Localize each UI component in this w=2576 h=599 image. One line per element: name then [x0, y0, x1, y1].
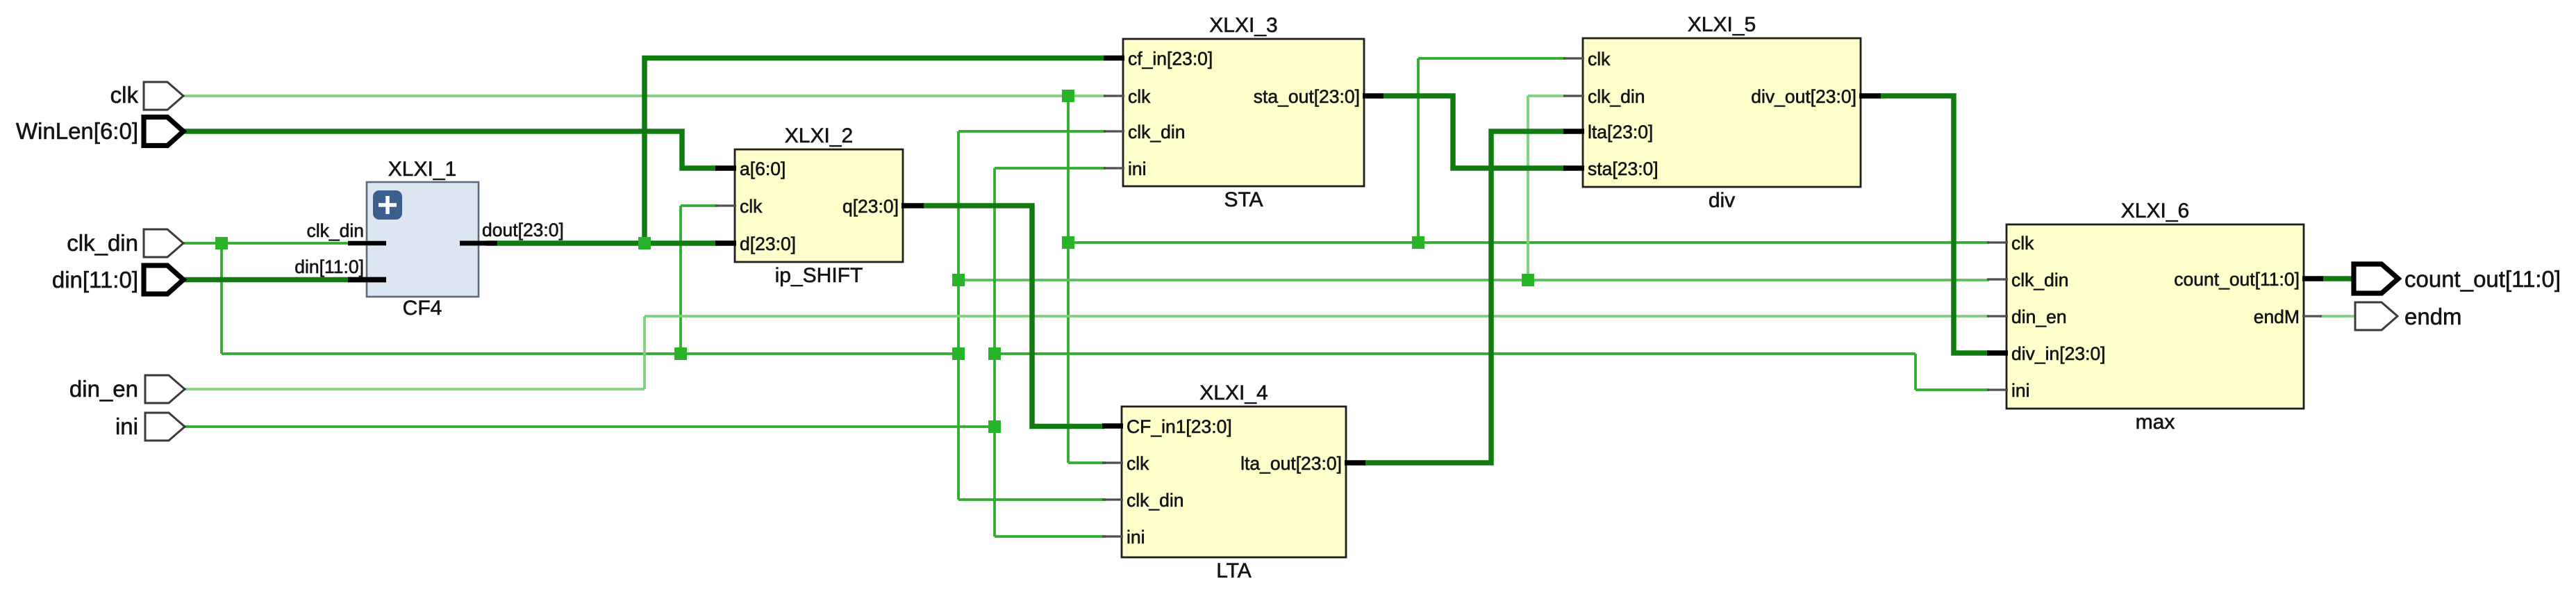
svg-text:ini: ini [1127, 527, 1145, 548]
svg-text:div: div [1709, 189, 1735, 212]
svg-text:XLXI_2: XLXI_2 [785, 124, 853, 147]
svg-text:CF4: CF4 [403, 297, 442, 320]
svg-text:clk: clk [1588, 49, 1611, 69]
svg-text:LTA: LTA [1216, 559, 1252, 582]
svg-text:div_in[23:0]: div_in[23:0] [2011, 343, 2106, 364]
svg-text:clk: clk [1127, 453, 1149, 474]
svg-text:sta[23:0]: sta[23:0] [1588, 158, 1659, 179]
svg-text:ip_SHIFT: ip_SHIFT [775, 264, 863, 287]
svg-text:din[11:0]: din[11:0] [294, 256, 364, 277]
svg-text:din[11:0]: din[11:0] [52, 267, 138, 293]
svg-text:XLXI_4: XLXI_4 [1199, 381, 1268, 404]
svg-text:XLXI_6: XLXI_6 [2121, 199, 2189, 222]
svg-text:CF_in1[23:0]: CF_in1[23:0] [1127, 416, 1232, 437]
svg-text:lta_out[23:0]: lta_out[23:0] [1240, 453, 1342, 474]
svg-text:din_en: din_en [2011, 306, 2067, 327]
svg-text:clk: clk [2011, 233, 2034, 254]
svg-text:XLXI_5: XLXI_5 [1688, 13, 1756, 36]
svg-text:dout[23:0]: dout[23:0] [482, 220, 564, 240]
svg-text:XLXI_1: XLXI_1 [388, 158, 456, 181]
svg-text:cf_in[23:0]: cf_in[23:0] [1128, 49, 1213, 69]
svg-text:clk: clk [110, 82, 139, 108]
svg-text:clk_din: clk_din [2011, 270, 2069, 290]
svg-text:count_out[11:0]: count_out[11:0] [2174, 269, 2300, 290]
svg-text:endM: endM [2254, 306, 2300, 327]
svg-text:clk_din: clk_din [307, 220, 365, 241]
svg-text:max: max [2136, 411, 2175, 434]
svg-text:sta_out[23:0]: sta_out[23:0] [1254, 86, 1360, 107]
svg-text:din_en: din_en [69, 376, 138, 402]
svg-text:clk: clk [740, 196, 763, 217]
svg-text:ini: ini [1128, 158, 1147, 179]
svg-text:lta[23:0]: lta[23:0] [1588, 122, 1653, 142]
svg-text:d[23:0]: d[23:0] [740, 233, 796, 254]
svg-text:q[23:0]: q[23:0] [842, 196, 899, 217]
svg-text:count_out[11:0]: count_out[11:0] [2404, 266, 2561, 292]
svg-text:clk_din: clk_din [1128, 122, 1186, 142]
svg-text:XLXI_3: XLXI_3 [1209, 14, 1277, 37]
svg-text:STA: STA [1224, 188, 1263, 211]
svg-text:clk_din: clk_din [1127, 490, 1184, 511]
svg-text:WinLen[6:0]: WinLen[6:0] [16, 118, 138, 144]
svg-text:ini: ini [2011, 380, 2030, 401]
svg-text:ini: ini [115, 413, 138, 439]
svg-text:clk: clk [1128, 86, 1151, 107]
svg-text:clk_din: clk_din [1588, 86, 1645, 107]
svg-text:clk_din: clk_din [67, 230, 138, 256]
svg-text:div_out[23:0]: div_out[23:0] [1751, 86, 1856, 107]
svg-text:endm: endm [2404, 304, 2462, 329]
svg-text:a[6:0]: a[6:0] [740, 158, 786, 179]
